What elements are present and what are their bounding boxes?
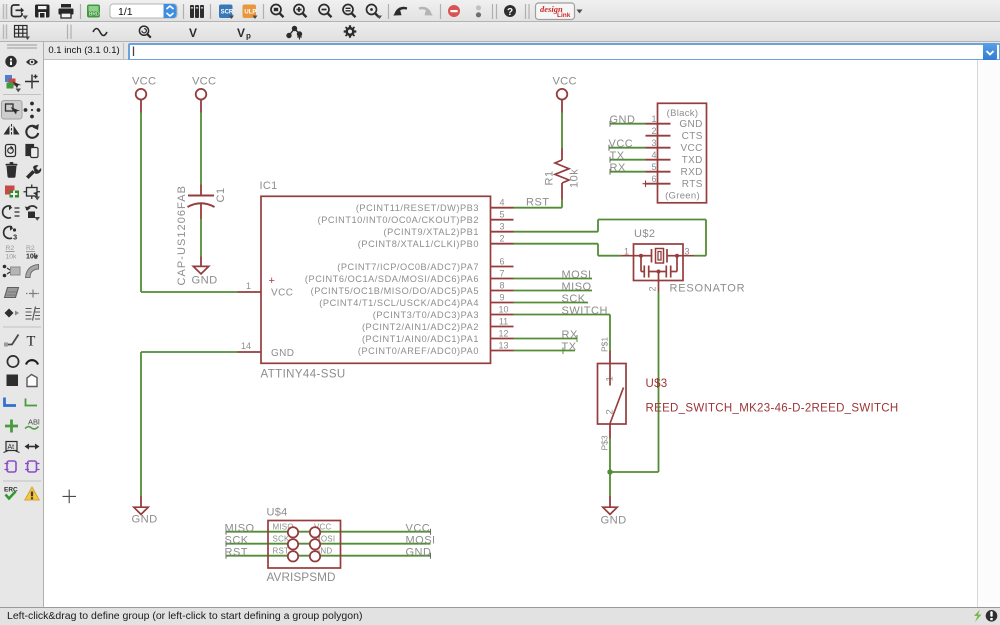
- svg-text:GND: GND: [192, 275, 218, 287]
- svg-text:(Green): (Green): [665, 191, 700, 202]
- undo icon: [393, 8, 407, 16]
- svg-text:SWITCH: SWITCH: [562, 305, 608, 317]
- toolbar2 separator pair: [68, 25, 72, 40]
- command dropdown chevron: [987, 51, 994, 55]
- ERC tool: [4, 487, 18, 499]
- toolbar print icon: [59, 4, 74, 18]
- pin tool: [5, 461, 17, 472]
- svg-text:RX: RX: [610, 162, 626, 174]
- svg-text:VCC: VCC: [406, 523, 431, 535]
- toolbar separator pair: [493, 4, 497, 19]
- toolbar separator: [80, 4, 82, 19]
- svg-text:RXD: RXD: [680, 167, 702, 178]
- run dots icon: [476, 5, 481, 17]
- gateswap tool: [25, 206, 40, 221]
- toolbar separator: [440, 4, 442, 19]
- status bar: [0, 607, 1000, 625]
- net SWITCH wire: [514, 315, 611, 351]
- errors tool: [25, 487, 39, 500]
- net SCK wire: [514, 302, 589, 304]
- split tool: [5, 288, 19, 298]
- zoom fit icon: [271, 5, 284, 18]
- svg-text:TX: TX: [562, 341, 577, 353]
- svg-text:VCC: VCC: [271, 288, 293, 299]
- right scroll strip: [977, 60, 1000, 607]
- resistor R1 10k: [544, 148, 581, 200]
- ULP icon: [243, 5, 258, 20]
- svg-text:VCC: VCC: [132, 76, 156, 88]
- svg-text:GND: GND: [132, 514, 158, 526]
- wrench tool: [26, 165, 41, 179]
- ISP header U$4 AVRISPSMD: [226, 507, 431, 585]
- display layers tool: [5, 75, 21, 92]
- net class tool: [5, 309, 20, 318]
- row3 divider: [123, 43, 125, 59]
- sidebar separator: [3, 94, 41, 96]
- info tool: [5, 56, 16, 67]
- resonator U$2: [621, 228, 745, 295]
- svg-text:10: 10: [498, 305, 508, 315]
- wire C1 to ground: [200, 219, 202, 257]
- svg-text:(PCINT2/AIN1/ADC2)PA2: (PCINT2/AIN1/ADC2)PA2: [362, 322, 479, 332]
- polygon tool: [27, 375, 37, 387]
- svg-text:(PCINT4/T1/SCL/USCK/ADC4)PA4: (PCINT4/T1/SCL/USCK/ADC4)PA4: [319, 298, 479, 308]
- IC1 right-side pin numbers: [498, 198, 508, 351]
- zoom in icon: [294, 5, 307, 18]
- supply symbol VCC (left, net to IC1 pin 1): [132, 76, 156, 113]
- svg-text:2: 2: [651, 126, 656, 136]
- grid icon: [15, 26, 28, 38]
- svg-text:P$1: P$1: [600, 337, 610, 352]
- rotate tool: [26, 124, 38, 138]
- svg-text:6: 6: [499, 257, 504, 267]
- wire VCC down to pin1 row: [140, 113, 142, 293]
- wire VCC to C1: [200, 113, 202, 185]
- svg-text:(PCINT9/XTAL2)PB1: (PCINT9/XTAL2)PB1: [384, 227, 479, 237]
- svg-text:4: 4: [651, 150, 656, 160]
- attribute tool: [4, 442, 20, 453]
- zoom out icon: [319, 5, 332, 18]
- svg-text:8: 8: [499, 281, 504, 291]
- svg-text:+: +: [269, 275, 275, 287]
- svg-text:SCK: SCK: [225, 535, 249, 547]
- mirror tool: [4, 124, 20, 136]
- svg-text:AVRISPSMD: AVRISPSMD: [267, 570, 336, 584]
- wire VCC to R1: [561, 113, 563, 149]
- redo icon (disabled): [419, 8, 433, 16]
- paste tool: [26, 145, 38, 158]
- net RST wire: [514, 207, 563, 209]
- capacitor C1: [188, 185, 215, 220]
- svg-text:MISO: MISO: [225, 523, 255, 535]
- svg-text:(PCINT5/OC1B/MISO/DO/ADC5)PA5: (PCINT5/OC1B/MISO/DO/ADC5)PA5: [311, 286, 479, 296]
- smash tool: [3, 265, 20, 278]
- svg-text:6: 6: [651, 174, 656, 184]
- SCR script icon: [219, 5, 234, 20]
- bus tool: [5, 398, 17, 406]
- wire SCK row: [226, 543, 431, 545]
- toolbar board icon: [87, 5, 100, 18]
- status info icon: [986, 610, 998, 622]
- status lightning icon: [974, 610, 982, 623]
- svg-text:2: 2: [499, 234, 504, 244]
- svg-text:MISO: MISO: [562, 281, 592, 293]
- svg-text:5: 5: [499, 210, 504, 220]
- junction tool: [5, 420, 18, 433]
- stop icon: [448, 5, 460, 17]
- svg-text:(PCINT11/RESET/DW)PB3: (PCINT11/RESET/DW)PB3: [356, 203, 479, 213]
- FTDI pin stubs 1-6: [646, 124, 671, 184]
- wire to IC1 pin 1: [141, 291, 238, 293]
- IC1 pin 14 (GND): [238, 341, 262, 352]
- svg-text:TXD: TXD: [682, 155, 703, 166]
- svg-text:U$4: U$4: [267, 507, 288, 519]
- svg-text:4: 4: [499, 198, 504, 208]
- svg-text:VCC: VCC: [680, 143, 702, 154]
- toolbar separator: [210, 4, 212, 19]
- zoom redraw icon: [367, 5, 380, 18]
- svg-text:7: 7: [499, 269, 504, 279]
- name tool: [6, 245, 18, 261]
- zoom-e icon: [139, 26, 150, 37]
- FTDI pin names: [679, 119, 702, 190]
- net MOSI wire: [514, 278, 593, 280]
- svg-text:3: 3: [685, 246, 690, 256]
- ground symbol GND (below reed switch): [601, 496, 627, 527]
- ground symbol GND (under C1): [192, 257, 218, 287]
- rect tool: [7, 375, 19, 387]
- miter tool: [26, 265, 39, 278]
- group select tool (active): [2, 101, 23, 120]
- svg-text:REED_SWITCH_MK23-46-D-2REED_SW: REED_SWITCH_MK23-46-D-2REED_SWITCH: [646, 403, 899, 415]
- toolbar separator: [263, 4, 265, 19]
- wire resonator pin2 to junction: [610, 292, 659, 473]
- circle tool: [7, 356, 18, 367]
- svg-text:(PCINT7/ICP/OC0B/ADC7)PA7: (PCINT7/ICP/OC0B/ADC7)PA7: [337, 262, 479, 272]
- svg-text:P$3: P$3: [600, 435, 610, 450]
- IC U1: IC1 ATTINY44-SSU body: [260, 180, 491, 381]
- toolbar separator pair: [526, 4, 530, 19]
- svg-text:CAP-US1206FAB: CAP-US1206FAB: [176, 185, 188, 285]
- svg-text:(Black): (Black): [667, 108, 699, 119]
- wire MISO row: [226, 531, 431, 533]
- IC1 right-side pin names: [305, 203, 479, 356]
- net VCC wire (FTDI): [609, 147, 646, 149]
- svg-text:MOSI: MOSI: [406, 535, 436, 547]
- svg-text:C1: C1: [215, 187, 227, 202]
- text cursor: [133, 47, 135, 57]
- add part tool: [5, 186, 19, 198]
- link/molecule icon: [287, 27, 302, 40]
- svg-text:1: 1: [624, 246, 629, 256]
- svg-text:(PCINT10/INT0/OC0A/CKOUT)PB2: (PCINT10/INT0/OC0A/CKOUT)PB2: [318, 215, 479, 225]
- top toolbar row 1: [0, 0, 1000, 22]
- net tool: [26, 399, 38, 406]
- net RX wire (FTDI): [610, 171, 646, 173]
- net wire pin2 to resonator pin 1: [514, 244, 622, 256]
- svg-text:(PCINT0/AREF/ADC0)PA0: (PCINT0/AREF/ADC0)PA0: [358, 346, 479, 356]
- svg-text:GND: GND: [610, 114, 636, 126]
- left tool sidebar: [0, 42, 44, 607]
- cut list tool: [26, 307, 41, 321]
- svg-text:10k: 10k: [569, 169, 581, 188]
- svg-text:MOSI: MOSI: [562, 269, 592, 281]
- optimize tool: [26, 290, 39, 298]
- svg-text:13: 13: [498, 341, 508, 351]
- svg-text:3: 3: [499, 222, 504, 232]
- wire R1 to RST net: [561, 200, 563, 208]
- pinswap tool: [3, 205, 20, 218]
- IC1 right-side pin stubs: [491, 208, 514, 351]
- row3 handle lines: [9, 47, 36, 54]
- sidebar drag handle: [7, 45, 37, 48]
- help icon: [504, 5, 516, 18]
- top toolbar row 2: [0, 22, 1000, 42]
- toolbar separator: [388, 4, 390, 19]
- ground symbol GND (bottom left): [132, 496, 158, 526]
- gear icon: [344, 25, 357, 38]
- label tool: [25, 418, 40, 429]
- svg-text:RTS: RTS: [682, 179, 703, 190]
- sheet origin cross: [63, 490, 77, 504]
- svg-text:(PCINT3/T0/ADC3)PA3: (PCINT3/T0/ADC3)PA3: [373, 310, 479, 320]
- design link button: [536, 3, 583, 20]
- toolbar handle: [4, 4, 7, 19]
- svg-text:(PCINT1/AIN0/ADC1)PA1: (PCINT1/AIN0/ADC1)PA1: [362, 334, 479, 344]
- svg-text:14: 14: [241, 341, 251, 351]
- svg-text:CTS: CTS: [682, 131, 703, 142]
- net GND wire (FTDI): [610, 123, 646, 125]
- mark tool: [25, 75, 39, 89]
- command input field: [128, 43, 1000, 61]
- sidebar separator: [3, 326, 41, 328]
- net TX wire: [514, 350, 576, 352]
- svg-text:U$3: U$3: [646, 378, 668, 390]
- supply symbol VCC (above C1): [192, 76, 216, 113]
- svg-text:2: 2: [648, 286, 658, 291]
- net MISO wire: [514, 290, 593, 292]
- move tool: [24, 102, 41, 119]
- reed switch U$3: [598, 337, 899, 451]
- svg-text:ATTINY44-SSU: ATTINY44-SSU: [261, 369, 346, 381]
- chgate tool: [4, 226, 18, 242]
- supply symbol VCC (above R1): [553, 76, 577, 113]
- wire reed switch to junction/ground: [609, 439, 611, 497]
- value tool: [26, 245, 39, 261]
- net TX wire (FTDI): [610, 159, 646, 161]
- svg-text:1: 1: [651, 114, 656, 124]
- IC1 pin 1 (VCC): [238, 281, 262, 292]
- svg-text:RST: RST: [526, 197, 550, 209]
- sheet selector 1/1: [110, 4, 177, 18]
- svg-text:TX: TX: [610, 150, 625, 162]
- svg-text:3: 3: [651, 138, 656, 148]
- svg-text:GND: GND: [679, 119, 702, 130]
- FTDI pin numbers: [651, 114, 656, 184]
- zoom select icon: [343, 5, 356, 18]
- wire RST row: [226, 555, 431, 557]
- svg-text:GND: GND: [406, 547, 432, 559]
- parameter/command row 3: [0, 42, 1000, 60]
- library books icon: [190, 5, 204, 18]
- svg-text:VCC: VCC: [192, 76, 216, 88]
- svg-text:R1: R1: [544, 170, 556, 185]
- svg-text:9: 9: [499, 293, 504, 303]
- svg-text:VCC: VCC: [553, 76, 577, 88]
- net RX wire: [514, 338, 578, 340]
- FTDI pin 6 end cross: [643, 181, 650, 188]
- show/eye tool: [26, 59, 38, 66]
- svg-text:RESONATOR: RESONATOR: [670, 283, 746, 295]
- frame tool: [24, 185, 41, 201]
- FTDI header connector: [658, 103, 707, 203]
- svg-text:(PCINT6/OC1A/SDA/MOSI/ADC6)PA6: (PCINT6/OC1A/SDA/MOSI/ADC6)PA6: [305, 274, 479, 284]
- svg-text:GND: GND: [601, 515, 627, 527]
- svg-text:12: 12: [498, 329, 508, 339]
- toolbar open icon: [12, 5, 25, 17]
- svg-text:RX: RX: [562, 329, 578, 341]
- svg-text:(PCINT8/XTAL1/CLKI)PB0: (PCINT8/XTAL1/CLKI)PB0: [358, 239, 479, 249]
- svg-text:5: 5: [651, 162, 656, 172]
- toolbar2 handle: [4, 25, 7, 40]
- svg-text:IC1: IC1: [260, 180, 278, 192]
- delete tool: [6, 162, 18, 178]
- junction: [607, 469, 612, 474]
- svg-text:U$2: U$2: [634, 228, 655, 240]
- coordinate display: [44, 42, 124, 59]
- toolbar save icon: [35, 5, 50, 18]
- svg-text:VCC: VCC: [609, 138, 634, 150]
- svg-text:RST: RST: [225, 547, 249, 559]
- svg-text:SCK: SCK: [562, 293, 586, 305]
- svg-text:1: 1: [246, 281, 251, 291]
- net wire pin3 to resonator pin 3: [514, 220, 707, 256]
- wire IC1 pin14 to ground: [141, 352, 238, 496]
- copy tool: [6, 145, 16, 157]
- pin tool 2: [25, 461, 40, 472]
- toolbar separator: [183, 4, 185, 19]
- svg-text:GND: GND: [271, 348, 294, 359]
- svg-text:RST: RST: [273, 547, 290, 556]
- wire/line tool: [4, 335, 19, 347]
- dimension tool: [25, 444, 40, 450]
- svg-text:11: 11: [499, 317, 508, 327]
- sidebar separator: [3, 480, 41, 482]
- sine wave icon: [93, 29, 107, 36]
- arc tool: [26, 360, 38, 364]
